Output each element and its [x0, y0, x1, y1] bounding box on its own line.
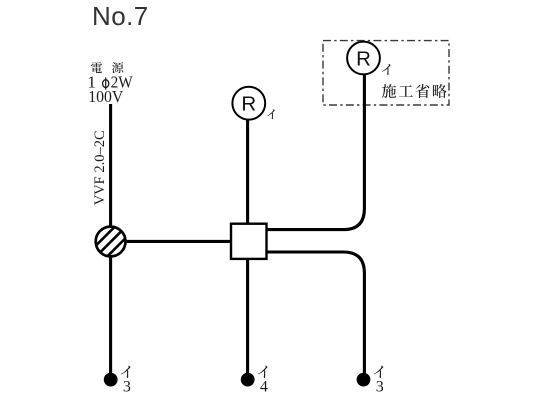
svg-text:VVF 2.0–2C: VVF 2.0–2C	[92, 130, 108, 205]
svg-text:4: 4	[260, 379, 268, 396]
svg-text:3: 3	[123, 379, 131, 396]
svg-text:3: 3	[376, 379, 384, 396]
svg-text:No.7: No.7	[92, 1, 149, 31]
svg-text:R: R	[241, 93, 256, 116]
svg-text:100V: 100V	[88, 86, 123, 106]
svg-text:R: R	[356, 47, 371, 70]
